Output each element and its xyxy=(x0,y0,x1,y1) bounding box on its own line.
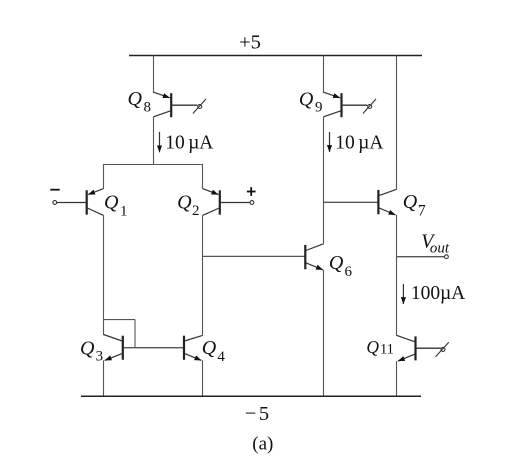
wire Q8 collector to tail xyxy=(153,117,155,165)
wire tail to Q2 emitter xyxy=(202,164,204,189)
svg-text:Q2: Q2 xyxy=(177,191,199,219)
svg-text:−5: −5 xyxy=(245,403,269,425)
svg-text:Q3: Q3 xyxy=(80,338,103,365)
wire Q1 collector to Q3 collector xyxy=(103,215,105,335)
Q9 bias terminal xyxy=(363,99,376,114)
svg-text:Q8: Q8 xyxy=(128,88,151,115)
transistor Q1 xyxy=(57,189,104,216)
wire +5 to Q8 emitter xyxy=(153,56,155,93)
input terminal minus xyxy=(50,190,59,205)
svg-text:Vout: Vout xyxy=(421,231,450,257)
transistor Q7 xyxy=(378,189,396,215)
svg-text:10 µA: 10 µA xyxy=(165,133,213,154)
wire Q4 emitter to -5 rail xyxy=(202,360,204,396)
Q3 diode connection vertical xyxy=(134,320,136,348)
svg-text:Q1: Q1 xyxy=(104,192,128,220)
current arrow 100uA xyxy=(402,284,404,304)
transistor Q6 xyxy=(305,244,323,270)
Q3 Q4 base rail xyxy=(123,347,184,349)
+5 rail xyxy=(129,55,422,57)
-5 rail xyxy=(81,395,421,397)
svg-text:Q9: Q9 xyxy=(299,89,323,116)
transistor Q8 xyxy=(154,92,198,117)
wire Q3 emitter to -5 rail xyxy=(103,360,105,396)
transistor Q2 xyxy=(203,189,250,216)
wire Q9 collector to Q6 collector xyxy=(323,117,325,244)
transistor Q9 xyxy=(324,92,368,117)
Vout terminal xyxy=(445,255,449,259)
svg-text:100µA: 100µA xyxy=(411,283,465,304)
wire tail to Q1 emitter xyxy=(103,164,105,189)
Q3 diode connection horizontal xyxy=(104,319,136,321)
svg-text:+5: +5 xyxy=(239,32,261,54)
wire Q11 emitter to -5 rail xyxy=(396,361,398,396)
Q11 bias terminal xyxy=(436,342,449,357)
svg-text:Q6: Q6 xyxy=(329,252,353,280)
svg-text:Q11: Q11 xyxy=(366,337,394,357)
current arrow 10uA left xyxy=(159,132,161,153)
wire +5 to Q9 emitter xyxy=(323,56,325,93)
wire node to Q7 base xyxy=(324,201,379,203)
transistor Q4 xyxy=(184,335,203,360)
wire Q2 collector to Q4 collector xyxy=(202,215,204,335)
transistor Q3 xyxy=(104,335,123,361)
svg-text:(a): (a) xyxy=(252,433,273,454)
Q8 bias terminal xyxy=(193,99,206,114)
transistor Q11 xyxy=(397,335,441,361)
svg-text:Q4: Q4 xyxy=(202,337,226,365)
wire Q6 emitter to -5 rail xyxy=(323,270,325,397)
Vout lead xyxy=(397,256,445,258)
svg-text:Q7: Q7 xyxy=(403,191,426,220)
input terminal plus xyxy=(247,187,256,204)
wire Q7 emitter to Q11 collector xyxy=(396,215,398,336)
wire +5 to Q7 collector xyxy=(396,56,398,190)
current arrow 10uA right xyxy=(329,132,331,152)
tail wire xyxy=(104,164,203,166)
svg-text:10 µA: 10 µA xyxy=(335,133,383,154)
wire Q2 collector to Q6 base xyxy=(203,255,306,257)
